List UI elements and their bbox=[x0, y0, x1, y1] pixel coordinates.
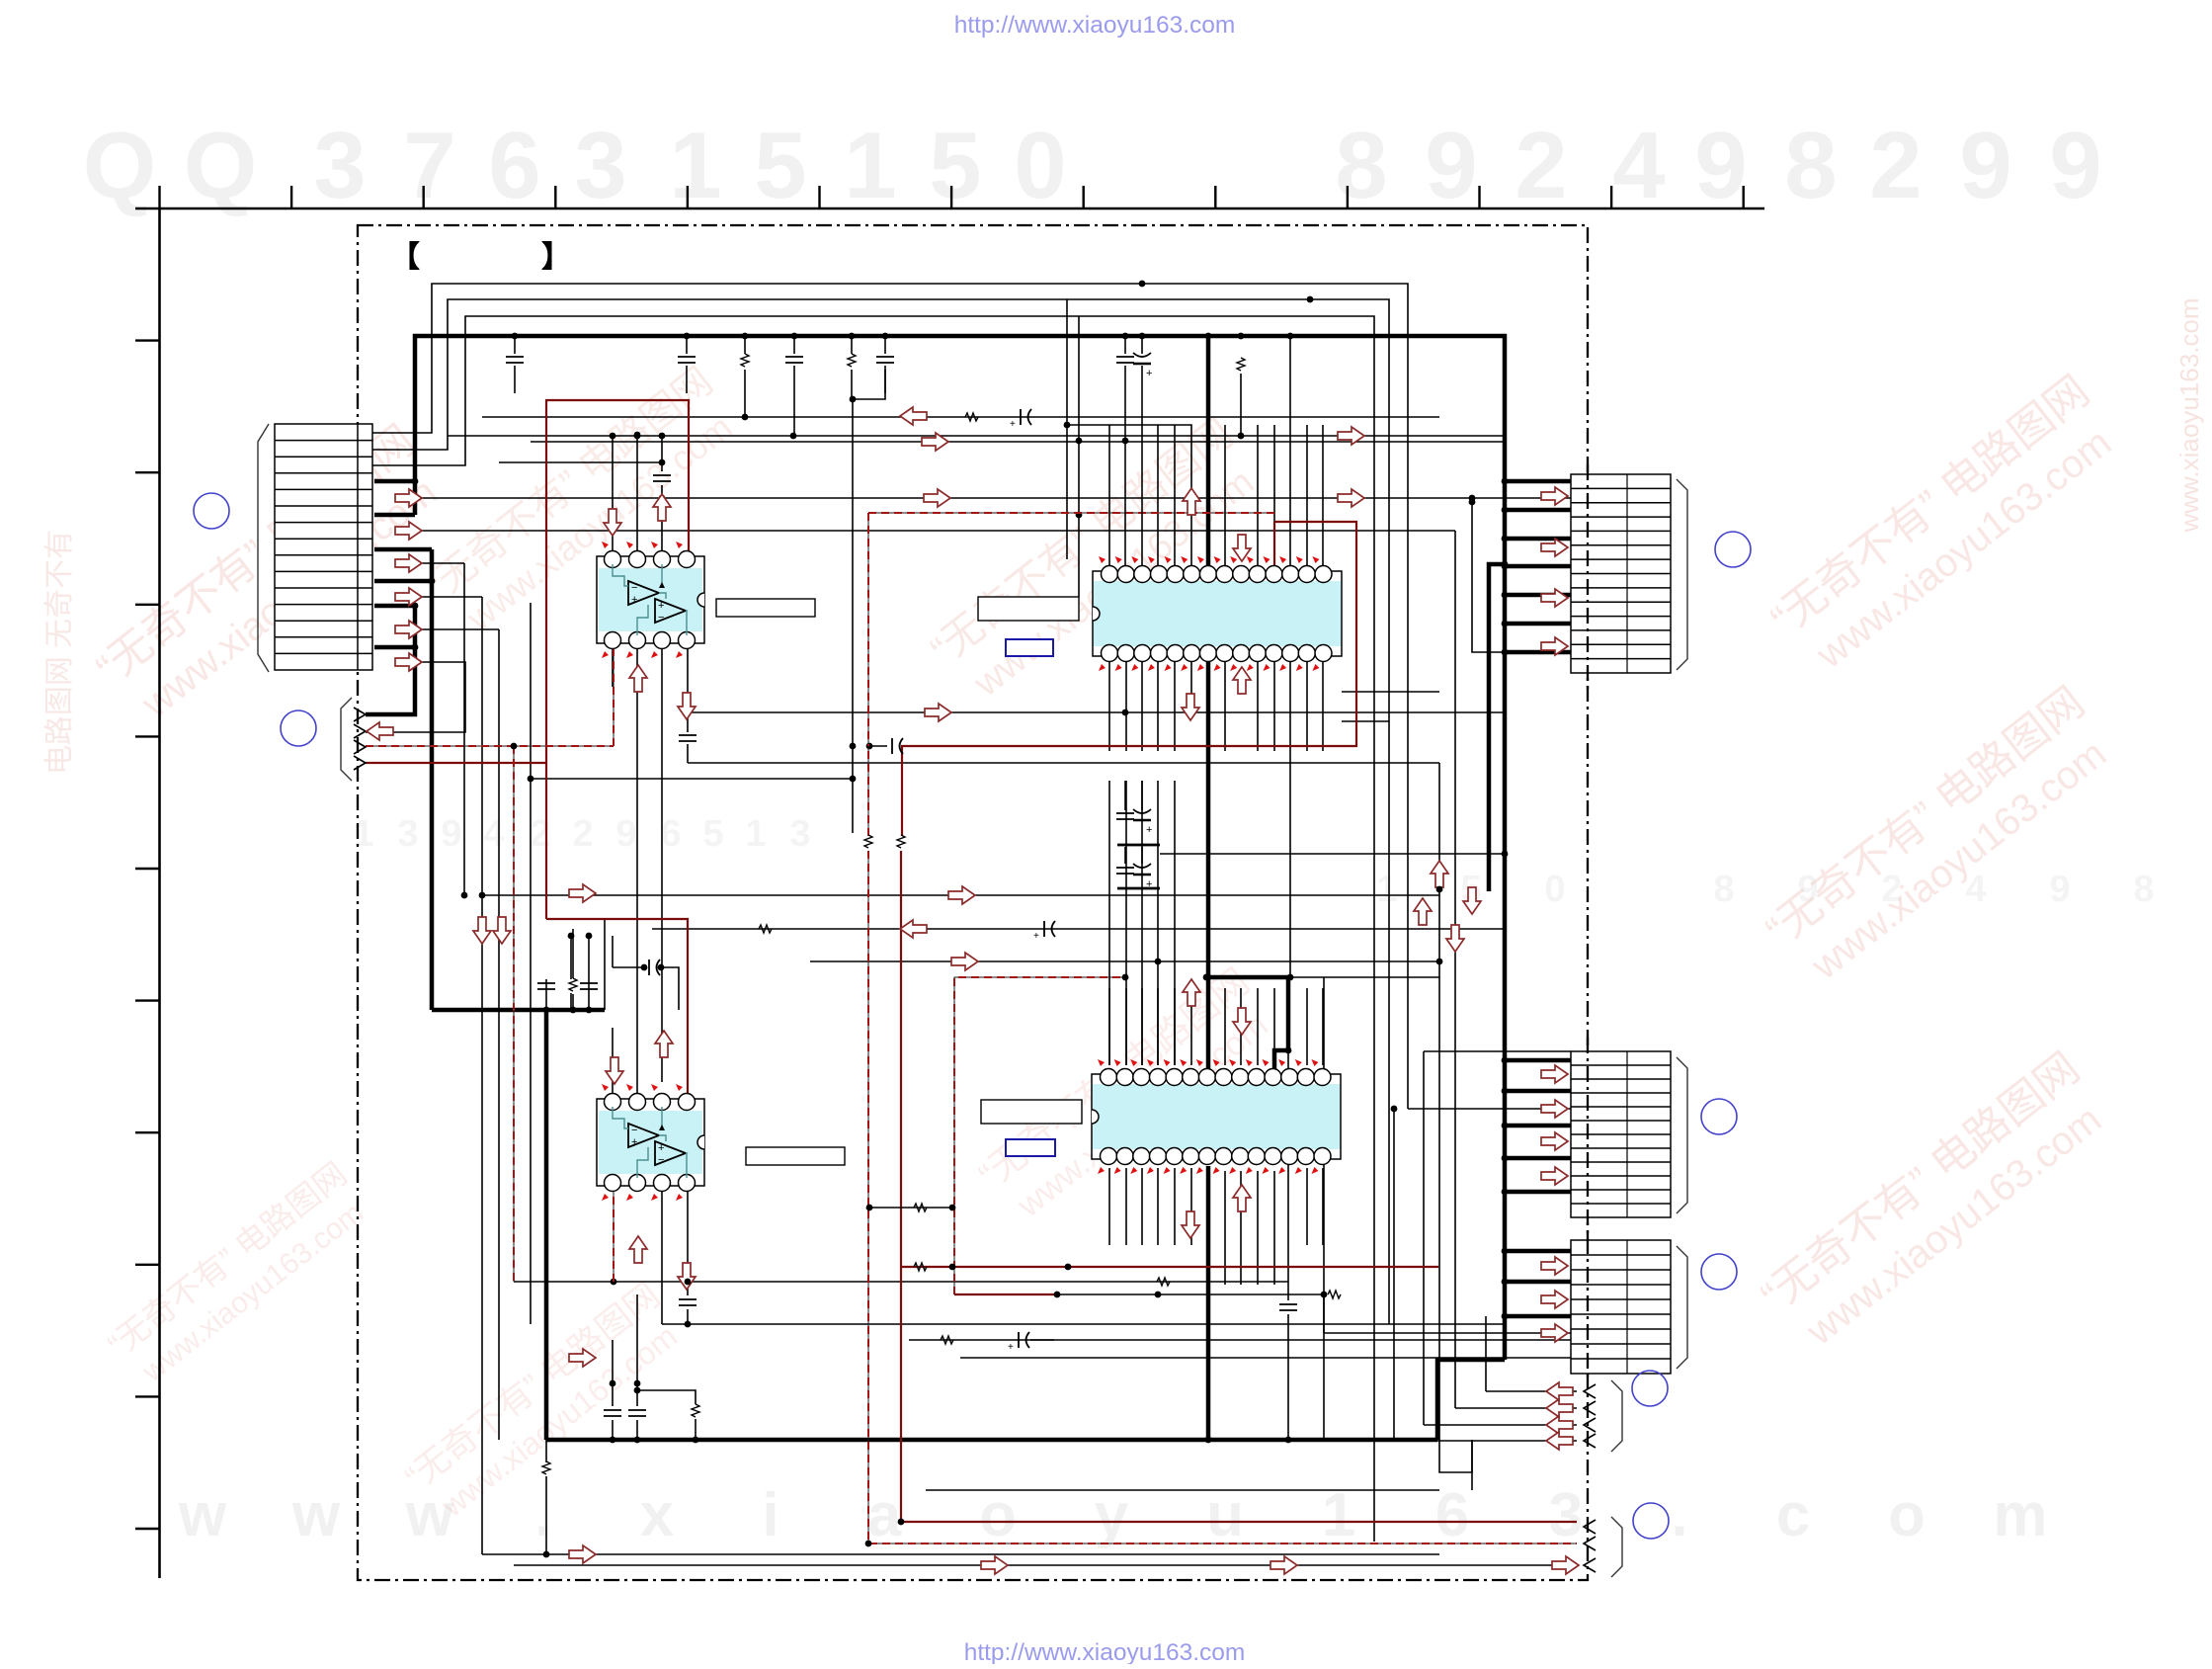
pin 23 bbox=[1184, 645, 1200, 662]
lead bbox=[793, 336, 795, 354]
svg-text:+: + bbox=[1146, 368, 1152, 379]
svg-text:9: 9 bbox=[1425, 113, 1477, 218]
signal arrow bbox=[1431, 861, 1448, 887]
svg-text:o: o bbox=[979, 1481, 1017, 1549]
lead bbox=[851, 336, 853, 354]
pin 6 bbox=[1183, 1069, 1199, 1086]
wire bbox=[570, 936, 572, 979]
junction bbox=[634, 1387, 641, 1394]
signal arrow bbox=[925, 704, 951, 721]
lead bbox=[686, 336, 688, 354]
wire (vertical run) bbox=[1454, 1091, 1456, 1408]
wire (signal) bbox=[909, 1339, 1054, 1341]
junction bbox=[1064, 422, 1071, 429]
wire (cap leads) bbox=[612, 1340, 614, 1440]
capacitor bbox=[580, 983, 598, 989]
wire (bold pin feed) bbox=[366, 647, 415, 714]
junction bbox=[634, 433, 641, 440]
wire (dark red net) bbox=[1273, 522, 1275, 566]
capacitor bbox=[628, 1410, 646, 1416]
connector CN1 bracket bbox=[258, 424, 269, 672]
reference circle bbox=[281, 710, 316, 746]
wire (thick vertical) bbox=[544, 1010, 549, 1440]
pin 8 bbox=[1215, 1069, 1232, 1086]
pin 27 bbox=[1116, 1148, 1133, 1165]
pin 14 bbox=[1314, 1069, 1331, 1086]
capacitor bbox=[785, 357, 803, 363]
reference circle bbox=[1633, 1503, 1669, 1539]
svg-text:2: 2 bbox=[1515, 113, 1567, 218]
capacitor bbox=[892, 738, 903, 754]
svg-text:6: 6 bbox=[488, 113, 540, 218]
junction bbox=[412, 603, 419, 610]
svg-text:+: + bbox=[1008, 1342, 1014, 1353]
op-amp triangle B bbox=[655, 599, 686, 623]
pin 28 bbox=[1102, 645, 1118, 662]
svg-text:8: 8 bbox=[1335, 113, 1387, 218]
pin 25 bbox=[1151, 645, 1168, 662]
pin 18 bbox=[1265, 1148, 1281, 1165]
wire (bold stub) bbox=[1505, 1156, 1571, 1161]
pin 11 bbox=[1265, 1069, 1281, 1086]
resistor bbox=[864, 835, 872, 848]
signal arrow bbox=[678, 693, 696, 719]
resistor bbox=[1157, 1278, 1170, 1286]
wire (IC pin lead) bbox=[1273, 661, 1275, 751]
svg-text:+: + bbox=[658, 1142, 664, 1154]
pin-group bracket bbox=[1611, 1380, 1622, 1452]
signal arrow bbox=[1546, 1382, 1573, 1400]
svg-text:−: − bbox=[658, 612, 664, 624]
wire (IC pin lead) bbox=[1322, 988, 1324, 1065]
junction bbox=[1436, 959, 1443, 965]
signal arrow bbox=[1541, 1167, 1568, 1185]
svg-text:4: 4 bbox=[1612, 113, 1665, 218]
resistor bbox=[1328, 1291, 1341, 1298]
resistor bbox=[759, 925, 772, 933]
pin 6 bbox=[654, 1175, 671, 1192]
svg-text:www.xiaoyu163.com: www.xiaoyu163.com bbox=[2174, 298, 2204, 534]
wire bbox=[588, 936, 590, 993]
watermark: light gray digits middle row bbox=[353, 813, 2154, 910]
wire (dark red net) bbox=[902, 522, 1356, 836]
pin 3 bbox=[654, 1094, 671, 1111]
wire (bold stub) bbox=[1505, 593, 1571, 598]
signal arrow bbox=[569, 1349, 596, 1367]
IC U4 (28-pin) bbox=[1092, 1059, 1341, 1174]
signal arrow bbox=[1541, 1257, 1568, 1275]
op-amp triangle A bbox=[628, 1124, 659, 1147]
pin 1 bbox=[605, 1094, 621, 1111]
wire (IC pin lead) bbox=[1108, 988, 1110, 1065]
wire (IC2 bottom lead) bbox=[1240, 1171, 1242, 1285]
svg-text:【: 【 bbox=[390, 241, 420, 274]
pin 7 bbox=[1199, 566, 1216, 583]
junction bbox=[479, 892, 486, 899]
junction bbox=[1065, 1264, 1072, 1271]
junction bbox=[1155, 1292, 1162, 1298]
reference circle bbox=[1715, 532, 1751, 567]
svg-text:Q: Q bbox=[83, 113, 157, 218]
resistor bbox=[914, 1204, 927, 1211]
signal arrow bbox=[1233, 535, 1251, 561]
wire (dark red net) bbox=[545, 763, 547, 919]
junction bbox=[1502, 649, 1509, 656]
junction bbox=[1391, 1106, 1398, 1113]
wire (dashed red net) bbox=[954, 977, 1125, 1294]
capacitor (electrolytic) bbox=[1133, 353, 1152, 379]
watermark: right edge vertical pink text bbox=[2174, 298, 2204, 534]
signal arrow bbox=[1233, 1008, 1251, 1035]
junction bbox=[742, 333, 749, 340]
wire (IC pin lead) bbox=[1157, 661, 1159, 751]
svg-text:2: 2 bbox=[530, 813, 550, 855]
wire bbox=[1342, 720, 1389, 722]
signal arrow bbox=[1546, 1416, 1573, 1434]
wire bbox=[1486, 1390, 1577, 1392]
junction bbox=[1139, 281, 1146, 288]
part-number blue box U2 bbox=[1006, 639, 1053, 656]
junction bbox=[850, 776, 857, 783]
capacitor bbox=[1008, 1332, 1029, 1353]
wire bbox=[1287, 1050, 1289, 1300]
wire bbox=[869, 745, 887, 747]
wire bbox=[688, 1281, 1288, 1283]
wire bbox=[498, 629, 500, 1440]
resistor bbox=[848, 354, 856, 367]
signal arrow bbox=[395, 653, 422, 671]
svg-text:9: 9 bbox=[1959, 113, 2011, 218]
junction bbox=[1502, 507, 1509, 514]
pin 22 bbox=[1198, 1148, 1215, 1165]
pin 5 bbox=[1167, 566, 1184, 583]
wire (inter-IC vertical) bbox=[1141, 781, 1143, 1065]
junction bbox=[742, 414, 749, 421]
watermark: pink diagonal stamps bbox=[88, 416, 456, 735]
svg-text:3: 3 bbox=[313, 113, 366, 218]
wire (IC pin lead) bbox=[1125, 661, 1127, 751]
IC U2 (28-pin) bbox=[1093, 556, 1342, 671]
wire (IC pin lead) bbox=[1141, 661, 1143, 751]
reference circle bbox=[1701, 1099, 1737, 1134]
pin 17 bbox=[1282, 645, 1299, 662]
wire (IC pin lead) bbox=[1306, 661, 1308, 751]
wire (bus line 3) bbox=[372, 316, 1374, 1542]
wire (dark red net) bbox=[901, 851, 1577, 1522]
junction bbox=[659, 433, 666, 440]
wire (inter-IC vertical) bbox=[1125, 781, 1127, 1065]
junction bbox=[791, 333, 798, 340]
junction bbox=[1287, 974, 1294, 981]
pin 1 bbox=[1102, 566, 1118, 583]
pin 19 bbox=[1248, 1148, 1265, 1165]
wire (signal) bbox=[482, 416, 1439, 418]
lead bbox=[572, 994, 574, 1010]
junction bbox=[1076, 512, 1083, 519]
wire bbox=[1424, 1424, 1577, 1426]
pin 26 bbox=[1134, 645, 1151, 662]
capacitor bbox=[653, 475, 671, 481]
part-number blue box U4 bbox=[1006, 1139, 1055, 1156]
notch bbox=[697, 1135, 704, 1149]
wire (signal) bbox=[531, 778, 853, 780]
svg-text:9: 9 bbox=[615, 813, 636, 855]
wire (bold stub) bbox=[374, 579, 432, 584]
svg-text:+: + bbox=[1033, 931, 1039, 942]
svg-text:w: w bbox=[178, 1481, 227, 1549]
wire (thick center vertical) bbox=[1206, 336, 1211, 566]
wire (bold stub) bbox=[1505, 650, 1571, 655]
pin 23 bbox=[1183, 1148, 1199, 1165]
junction bbox=[429, 578, 436, 585]
reference circle bbox=[1632, 1371, 1668, 1406]
connector CN3 (right mid) bbox=[1571, 1051, 1671, 1217]
svg-text:+: + bbox=[658, 600, 664, 612]
reference circle bbox=[1701, 1254, 1737, 1290]
pin-group bracket bbox=[1677, 1246, 1687, 1369]
svg-text:4: 4 bbox=[483, 813, 504, 855]
junction bbox=[1321, 1292, 1328, 1298]
pin 12 bbox=[1282, 566, 1299, 583]
ruler tick marks left bbox=[135, 341, 160, 1529]
wire (thick center vertical) bbox=[1206, 661, 1211, 1072]
pin 3 bbox=[654, 551, 671, 568]
signal arrow bbox=[395, 554, 422, 572]
lead bbox=[514, 336, 516, 354]
ruler line bbox=[135, 208, 1764, 210]
junction bbox=[1122, 333, 1129, 340]
signal arrow bbox=[1552, 1556, 1579, 1574]
wire bbox=[1117, 887, 1160, 890]
pin 7 bbox=[1198, 1069, 1215, 1086]
pin 12 bbox=[1281, 1069, 1298, 1086]
wire (IC pin lead) bbox=[1257, 661, 1259, 751]
signal arrow bbox=[1182, 1211, 1199, 1238]
junction bbox=[1054, 1292, 1061, 1298]
junction bbox=[685, 709, 692, 716]
wire bbox=[1190, 661, 1192, 717]
wire (vertical run) bbox=[661, 643, 663, 1082]
wire bbox=[1424, 1050, 1571, 1052]
junction bbox=[543, 1007, 550, 1014]
signal arrow bbox=[1463, 887, 1481, 914]
svg-text:8: 8 bbox=[1713, 869, 1734, 910]
junction bbox=[586, 1007, 593, 1014]
wire (thick segment) bbox=[1208, 977, 1288, 1050]
svg-text:电路图网 无奇不有: 电路图网 无奇不有 bbox=[43, 530, 76, 775]
junction bbox=[1469, 495, 1476, 502]
wire (bold stub) bbox=[1505, 508, 1571, 513]
junction bbox=[865, 1541, 872, 1547]
junction bbox=[693, 1437, 699, 1444]
svg-text:http://www.xiaoyu163.com: http://www.xiaoyu163.com bbox=[964, 1639, 1246, 1664]
signal arrow bbox=[629, 1236, 647, 1263]
pin 16 bbox=[1298, 645, 1315, 662]
signal arrow bbox=[1541, 637, 1568, 655]
junction bbox=[512, 333, 519, 340]
junction bbox=[1122, 438, 1129, 445]
pin 16 bbox=[1297, 1148, 1314, 1165]
lead bbox=[1141, 336, 1143, 354]
wire (dashed red net) bbox=[366, 745, 614, 747]
wire (IC pin lead) bbox=[1190, 1168, 1192, 1245]
wire (bold stub) bbox=[374, 606, 415, 647]
junction bbox=[1502, 851, 1509, 858]
junction bbox=[685, 1321, 692, 1328]
junction bbox=[1238, 333, 1245, 340]
wire (IC pin lead) bbox=[1224, 425, 1226, 566]
wire (vertical run) bbox=[1423, 1051, 1425, 1425]
notch bbox=[1092, 1110, 1099, 1124]
wire (corner into IC pin) bbox=[1067, 425, 1191, 566]
junction bbox=[882, 333, 889, 340]
wire (op-amp pin riser) bbox=[612, 436, 614, 556]
junction bbox=[659, 495, 666, 502]
junction bbox=[1502, 478, 1509, 485]
wire (bold stub) bbox=[374, 481, 415, 515]
svg-text:y: y bbox=[1095, 1481, 1129, 1549]
wire bbox=[852, 399, 854, 833]
junction bbox=[568, 933, 575, 940]
wire bbox=[1342, 691, 1439, 693]
svg-text:c: c bbox=[1776, 1481, 1810, 1549]
junction bbox=[790, 433, 797, 440]
wire bbox=[613, 967, 679, 1010]
wire (signal) bbox=[810, 960, 1439, 962]
svg-text:2: 2 bbox=[1869, 113, 1922, 218]
signal arrow bbox=[569, 1545, 596, 1563]
wire bbox=[661, 1191, 663, 1324]
svg-text:1: 1 bbox=[669, 113, 721, 218]
junction bbox=[1469, 499, 1476, 506]
wire (IC pin lead) bbox=[1157, 988, 1159, 1065]
value box for U2 bbox=[978, 597, 1079, 621]
pin 2 bbox=[1117, 566, 1134, 583]
svg-text:】: 】 bbox=[541, 241, 571, 274]
wire bbox=[1117, 844, 1160, 847]
svg-text:o: o bbox=[1888, 1481, 1925, 1549]
lead bbox=[1124, 336, 1126, 354]
wire bbox=[1323, 1294, 1325, 1333]
signal arrow bbox=[1338, 489, 1364, 507]
wire (IC pin lead) bbox=[1125, 988, 1127, 1065]
wire (IC pin lead) bbox=[1190, 988, 1192, 1065]
wire (IC pin lead) bbox=[1174, 988, 1176, 1065]
junction bbox=[898, 1519, 905, 1526]
wire (IC pin lead) bbox=[1306, 425, 1308, 566]
wire (signal) bbox=[688, 711, 1505, 713]
junction bbox=[1155, 959, 1162, 965]
signal arrow bbox=[606, 1057, 623, 1084]
wire bbox=[1438, 763, 1440, 889]
pin 11 bbox=[1266, 566, 1282, 583]
pin 10 bbox=[1248, 1069, 1265, 1086]
junction bbox=[528, 776, 534, 783]
pin 26 bbox=[1133, 1148, 1150, 1165]
wire (dashed red net) bbox=[868, 851, 1577, 1544]
junction bbox=[1502, 1313, 1509, 1320]
wire bbox=[514, 1281, 688, 1283]
svg-text:+: + bbox=[1010, 419, 1016, 430]
resistor bbox=[569, 978, 577, 991]
svg-text:5: 5 bbox=[929, 113, 981, 218]
svg-text:+: + bbox=[631, 594, 637, 606]
wire bbox=[687, 1309, 689, 1324]
pin 7 bbox=[629, 632, 646, 649]
signal arrow bbox=[655, 1031, 673, 1057]
wire (dark red net) bbox=[546, 919, 688, 1099]
signal arrow bbox=[1541, 1065, 1568, 1083]
pin 1 bbox=[605, 551, 621, 568]
junction bbox=[543, 1551, 550, 1558]
wire (IC pin lead) bbox=[1108, 661, 1110, 751]
wire (vertical run) bbox=[1393, 1109, 1395, 1441]
signal arrow bbox=[395, 489, 422, 507]
junction bbox=[634, 432, 641, 439]
wire (IC pin lead) bbox=[1257, 988, 1259, 1065]
wire (cap leads) bbox=[636, 1294, 638, 1440]
signal arrow bbox=[1541, 539, 1568, 556]
wire (IC2 bottom lead) bbox=[1257, 1171, 1259, 1285]
signal arrow bbox=[493, 917, 511, 944]
resistor bbox=[897, 835, 905, 848]
pin 24 bbox=[1167, 645, 1184, 662]
svg-text:http://www.xiaoyu163.com: http://www.xiaoyu163.com bbox=[954, 12, 1236, 39]
pin 28 bbox=[1101, 1148, 1117, 1165]
signal arrow bbox=[981, 1556, 1008, 1574]
pin 19 bbox=[1249, 645, 1266, 662]
wire bbox=[1454, 531, 1456, 1091]
svg-text:1: 1 bbox=[1376, 869, 1397, 910]
junction bbox=[1502, 536, 1509, 542]
svg-text:3: 3 bbox=[397, 813, 418, 855]
pin 27 bbox=[1117, 645, 1134, 662]
signal arrow bbox=[1541, 487, 1568, 505]
svg-text:Q: Q bbox=[184, 113, 258, 218]
pin 17 bbox=[1281, 1148, 1298, 1165]
pin 15 bbox=[1315, 645, 1332, 662]
svg-text:8: 8 bbox=[2133, 869, 2154, 910]
capacitor bbox=[1010, 409, 1031, 430]
value box for U1 bbox=[716, 599, 815, 617]
junction bbox=[1238, 433, 1245, 440]
wire (inter-IC vertical) bbox=[1157, 781, 1159, 1065]
wire (inter-IC vertical) bbox=[1174, 781, 1176, 1065]
svg-text:a: a bbox=[867, 1481, 902, 1549]
wire (signal) bbox=[531, 441, 1505, 443]
pin-group bracket bbox=[1677, 1057, 1687, 1213]
wire (signal) bbox=[926, 1489, 1439, 1491]
pin 4 bbox=[1151, 566, 1168, 583]
wire bbox=[366, 662, 465, 732]
pin 18 bbox=[1266, 645, 1282, 662]
pin 2 bbox=[629, 1094, 646, 1111]
svg-text:5: 5 bbox=[702, 813, 723, 855]
connector CN1 (left ribbon header) bbox=[275, 424, 372, 670]
wire (IC pin lead) bbox=[1174, 1168, 1176, 1245]
signal arrow bbox=[1414, 898, 1432, 925]
wire (IC pin lead) bbox=[1322, 661, 1324, 751]
watermark: light gray digits top row bbox=[83, 113, 2102, 218]
pin-group bracket bbox=[341, 698, 352, 781]
capacitor bbox=[678, 357, 696, 363]
resistor bbox=[941, 1336, 953, 1344]
capacitor bbox=[1033, 921, 1055, 942]
capacitor bbox=[506, 357, 524, 363]
wire bbox=[636, 643, 638, 712]
op-amp U3 bbox=[597, 1084, 704, 1201]
capacitor bbox=[604, 1410, 621, 1416]
